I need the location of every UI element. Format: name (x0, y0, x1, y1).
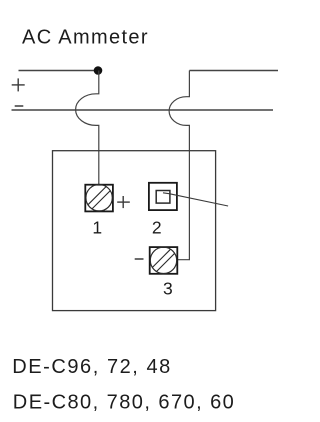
svg-text:AC Ammeter: AC Ammeter (22, 27, 149, 49)
wire: right drop with crossover hop, down to terminal 3 (169, 71, 189, 260)
svg-text:2: 2 (152, 218, 162, 238)
svg-text:DE-C80, 780, 670, 60: DE-C80, 780, 670, 60 (13, 391, 235, 413)
terminal 1 (screw, +) (85, 185, 113, 212)
terminal 3 (screw, −) (150, 247, 178, 274)
svg-text:DE-C96, 72, 48: DE-C96, 72, 48 (12, 356, 172, 378)
svg-text:1: 1 (92, 218, 102, 238)
wire: left drop from dot with crossover hop (76, 71, 99, 186)
label: + beside terminal 1 (117, 196, 130, 208)
label: − polarity (left, above lower line) (15, 105, 24, 107)
terminal 2 (CT input, square) (149, 183, 177, 210)
node: junction dot (94, 66, 103, 75)
wire: lower (−) horizontal line (12, 109, 274, 111)
wire: top-right horizontal line (189, 70, 278, 72)
svg-text:3: 3 (163, 278, 173, 298)
label: + polarity (top left) (12, 78, 25, 91)
label: − beside terminal 3 (135, 258, 144, 260)
leader line from terminal 2 (163, 193, 228, 206)
meter body outline box (53, 151, 216, 311)
wire: top-left horizontal (+) line (19, 70, 99, 72)
